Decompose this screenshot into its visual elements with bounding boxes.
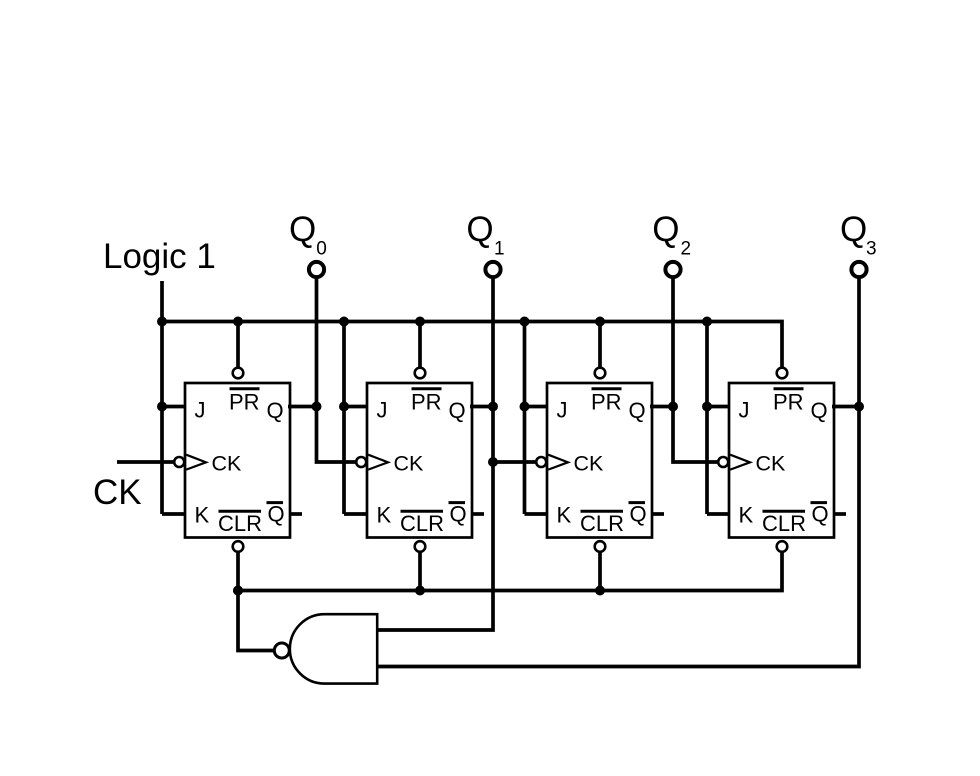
- U2 CLR overline: [401, 510, 444, 513]
- wire: U2 CLR stub to clear bus: [418, 551, 422, 591]
- wire: U3 CLR stub to clear bus: [598, 551, 602, 591]
- junction: bus / U2 PR: [415, 317, 425, 327]
- wire: U4 J input: [707, 405, 731, 409]
- wire: U4 Qbar stub: [833, 512, 846, 516]
- svg-text:Q: Q: [466, 210, 493, 249]
- NAND gate G1 body (points left): [290, 614, 377, 683]
- wire: clear bus with corner up to U4 CLR: [238, 551, 782, 591]
- U3 PR bubble: [595, 368, 606, 379]
- U4 CLR bubble: [777, 541, 788, 552]
- wire: U2 J input: [344, 405, 369, 409]
- junction: bus / U2 feed: [339, 317, 349, 327]
- U3 Qbar overline: [629, 501, 646, 504]
- svg-text:Q: Q: [268, 502, 285, 527]
- wire: U3 Q output: [650, 405, 673, 409]
- U4 clock edge triangle: [730, 455, 750, 470]
- junction: U3 feed / J branch: [520, 402, 530, 412]
- wire: U3 J input: [525, 405, 550, 409]
- terminal Q0: [309, 262, 324, 277]
- svg-text:Q: Q: [630, 502, 647, 527]
- junction: U1 feed / J branch: [157, 402, 167, 412]
- junction: U1 Q / Q0 net: [312, 402, 322, 412]
- junction: clear bus / NAND output: [233, 586, 243, 596]
- svg-text:CK: CK: [212, 452, 243, 476]
- svg-text:Q: Q: [811, 398, 828, 423]
- U1 Qbar overline: [267, 501, 284, 504]
- wire: NAND output to clear bus: [238, 591, 274, 651]
- U3 clock edge triangle: [548, 455, 568, 470]
- wire: CK clock input line: [117, 460, 175, 464]
- U2 clock edge triangle: [368, 455, 388, 470]
- svg-text:PR: PR: [411, 390, 442, 415]
- wire: U2 K input: [344, 512, 369, 516]
- svg-text:J: J: [739, 398, 750, 423]
- U3 CLR overline: [581, 510, 624, 513]
- wire: Logic 1 bus with corner down to U4 PR: [162, 322, 782, 369]
- svg-text:J: J: [377, 398, 388, 423]
- U4 CLR overline: [763, 510, 806, 513]
- flip-flop U4 body: [729, 383, 834, 538]
- wire: U1 CLR stub to clear bus: [236, 551, 240, 591]
- svg-text:CK: CK: [93, 473, 142, 512]
- junction: U2 feed / J branch: [339, 402, 349, 412]
- svg-text:2: 2: [681, 239, 692, 260]
- svg-text:K: K: [739, 503, 754, 528]
- svg-text:CLR: CLR: [218, 511, 262, 536]
- junction: U2 Q / Q1 net: [488, 402, 498, 412]
- terminal Q2: [665, 262, 680, 277]
- U4 PR overline: [774, 387, 804, 390]
- wire: U1 J input: [162, 405, 187, 409]
- U1 CLR overline: [219, 510, 262, 513]
- U1 PR overline: [230, 387, 260, 390]
- U3 CLR bubble: [595, 541, 606, 552]
- svg-text:K: K: [195, 503, 210, 528]
- wire: U3 K input: [525, 512, 550, 516]
- wire: Q3 net down to NAND input B: [379, 277, 860, 667]
- junction: clear bus / U3 CLR: [595, 586, 605, 596]
- wire: logic-1 feed to U4 J/K: [705, 322, 709, 515]
- U4 clock bubble: [718, 457, 728, 467]
- wire: U1 K input: [162, 512, 187, 516]
- wire: logic-1 feed to U3 J/K: [523, 322, 527, 515]
- wire: Q1 net down to NAND input A: [379, 277, 494, 631]
- junction: U4 feed / J branch: [702, 402, 712, 412]
- svg-text:Q: Q: [840, 210, 867, 249]
- svg-text:CK: CK: [574, 452, 605, 476]
- U3 PR overline: [592, 387, 622, 390]
- junction: U4 Q / Q3 net: [854, 402, 864, 412]
- terminal Q3: [851, 262, 866, 277]
- svg-text:Q: Q: [289, 210, 316, 249]
- svg-text:CLR: CLR: [400, 511, 444, 536]
- U1 clock edge triangle: [186, 455, 206, 470]
- svg-text:CLR: CLR: [580, 511, 624, 536]
- NAND G1 output bubble: [274, 643, 289, 658]
- wire: U1 PR drop from bus: [236, 322, 240, 370]
- junction: bus / U1 PR: [233, 317, 243, 327]
- flip-flop U2 body: [367, 383, 472, 538]
- junction: bus / U1 feed: [157, 317, 167, 327]
- svg-text:CK: CK: [394, 452, 425, 476]
- junction: bus / U3 feed: [520, 317, 530, 327]
- wire: U4 K input: [707, 512, 731, 516]
- U4 Qbar overline: [811, 501, 828, 504]
- wire: U3 Qbar stub: [651, 512, 664, 516]
- U2 PR overline: [412, 387, 442, 390]
- wire: U2 Q output: [470, 405, 493, 409]
- svg-text:Q: Q: [267, 398, 284, 423]
- wire: Logic 1 vertical drop: [160, 281, 164, 322]
- U1 PR bubble: [233, 368, 244, 379]
- wire: Q1 branch to U3 clock: [493, 460, 536, 464]
- junction: U3 Q / Q2 net: [668, 402, 678, 412]
- svg-text:PR: PR: [229, 390, 260, 415]
- wire: U2 PR drop from bus: [418, 322, 422, 370]
- svg-text:K: K: [557, 503, 572, 528]
- svg-text:0: 0: [316, 239, 327, 260]
- wire: U2 Qbar stub: [471, 512, 484, 516]
- svg-text:PR: PR: [591, 390, 622, 415]
- U1 CLR bubble: [233, 541, 244, 552]
- svg-text:Q: Q: [812, 502, 829, 527]
- U2 clock bubble: [356, 457, 366, 467]
- svg-text:3: 3: [866, 239, 877, 260]
- junction: bus / U4 feed: [702, 317, 712, 327]
- svg-text:1: 1: [494, 239, 505, 260]
- wire: U4 Q output: [832, 405, 859, 409]
- svg-text:Q: Q: [629, 398, 646, 423]
- svg-text:CLR: CLR: [762, 511, 806, 536]
- wire: logic-1 feed to U1 J/K: [160, 322, 164, 515]
- wire: U1 Qbar stub: [289, 512, 302, 516]
- terminal Q1: [485, 262, 500, 277]
- svg-text:Logic 1: Logic 1: [103, 237, 216, 276]
- svg-text:J: J: [195, 398, 206, 423]
- flip-flop U3 body: [547, 383, 652, 538]
- wire: logic-1 feed to U2 J/K: [342, 322, 346, 515]
- junction: bus / U3 PR: [595, 317, 605, 327]
- U2 Qbar overline: [449, 501, 466, 504]
- wire: Q2 net to U4 clock: [673, 277, 718, 463]
- svg-text:PR: PR: [773, 390, 804, 415]
- wire: Q0 net to U2 clock: [317, 277, 357, 463]
- U4 PR bubble: [777, 368, 788, 379]
- svg-text:Q: Q: [450, 502, 467, 527]
- U2 PR bubble: [415, 368, 426, 379]
- wire: U3 PR drop from bus: [598, 322, 602, 370]
- U1 clock bubble: [174, 457, 184, 467]
- junction: Q1 net / U3 clock branch: [488, 457, 498, 467]
- svg-text:Q: Q: [449, 398, 466, 423]
- svg-text:K: K: [377, 503, 392, 528]
- svg-text:J: J: [557, 398, 568, 423]
- U3 clock bubble: [536, 457, 546, 467]
- wire: U1 Q output: [288, 405, 317, 409]
- svg-text:Q: Q: [652, 210, 679, 249]
- svg-text:CK: CK: [756, 452, 787, 476]
- U2 CLR bubble: [415, 541, 426, 552]
- junction: clear bus / U2 CLR: [415, 586, 425, 596]
- flip-flop U1 body: [185, 383, 290, 538]
- junction: clear bus / U1 CLR: [233, 586, 243, 596]
